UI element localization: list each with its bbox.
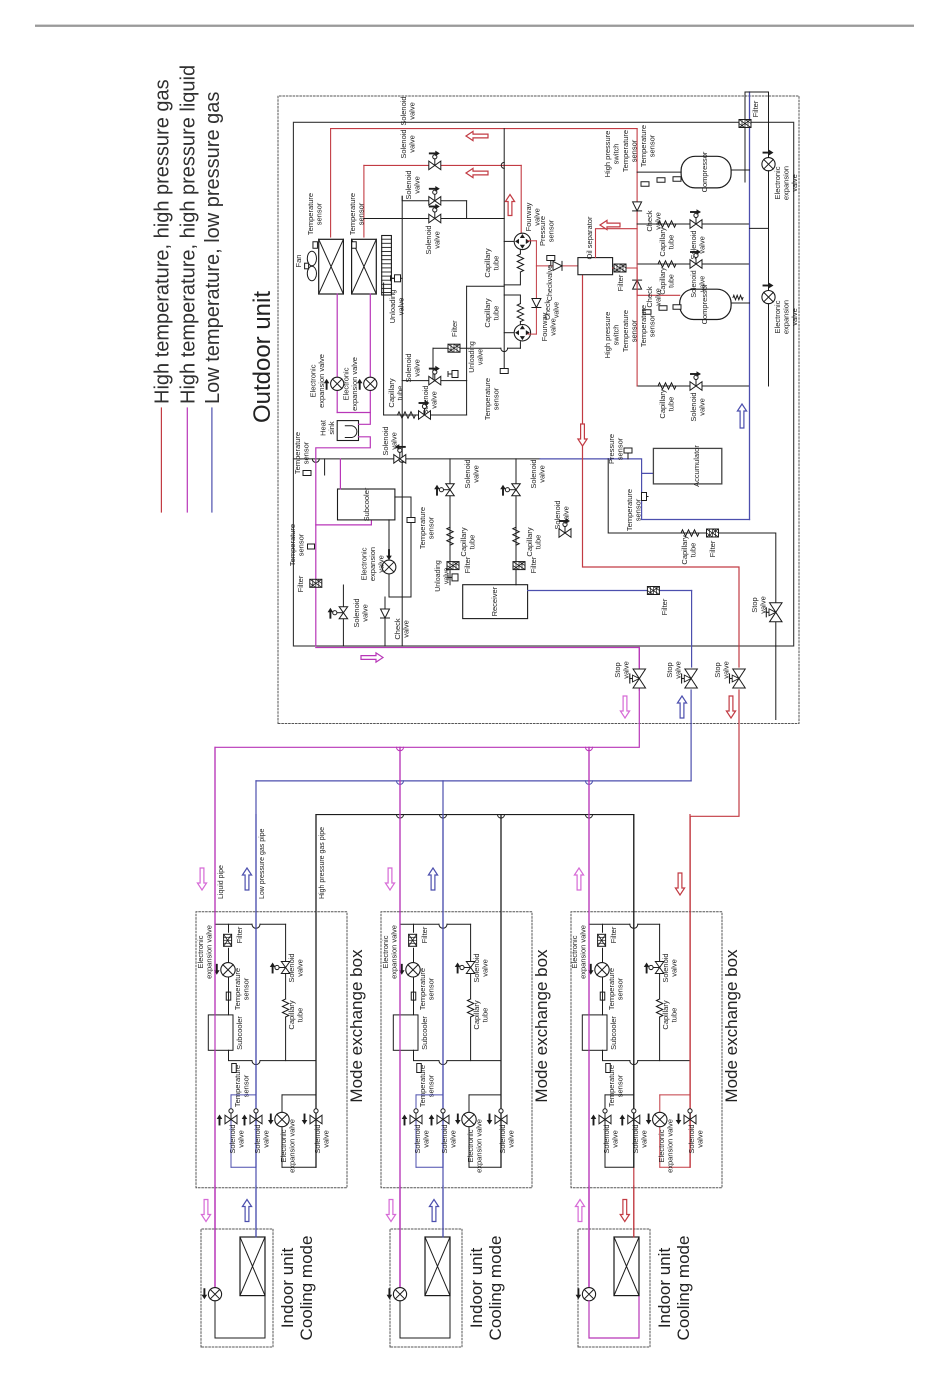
solenoid valve mid wire: [402, 380, 466, 382]
compressor 1: [681, 156, 731, 188]
wire through EEV to subcooler: [413, 977, 415, 1015]
EEV mode box: [406, 963, 420, 977]
svg-text:Cooling mode: Cooling mode: [297, 1236, 316, 1341]
comp1 suction stub: [731, 169, 749, 171]
magenta subcooler branch: [316, 520, 372, 525]
svg-text:valve: valve: [377, 555, 386, 573]
rack wire B: [402, 196, 466, 201]
filter mode box: [224, 934, 232, 946]
svg-text:valve: valve: [481, 959, 490, 977]
mid wire segment 1: [605, 1094, 634, 1096]
indoor gas pipe: [442, 1186, 444, 1237]
bottom wire: [416, 1166, 443, 1168]
magenta subcooler inlet: [339, 459, 341, 489]
wire: red discharge to condenser 1: [330, 129, 332, 237]
svg-text:valve: valve: [554, 302, 561, 318]
temperature sensor 1 mode box: [600, 992, 605, 1000]
svg-text:Mode exchange box: Mode exchange box: [722, 949, 741, 1103]
temperature sensor 2 mode box: [606, 1064, 611, 1073]
subcooler outlet wire with temperature sensor: [410, 497, 412, 552]
accumulator tank: [653, 448, 721, 484]
liquid pipe into indoor unit: [588, 1186, 590, 1288]
indoor heat exchanger: [240, 1237, 265, 1296]
svg-text:expansion valve: expansion valve: [390, 925, 399, 979]
filter on stop valve 4 line: [707, 529, 719, 537]
svg-text:valve: valve: [478, 349, 485, 365]
bottom wire: [231, 1166, 256, 1168]
svg-text:valve: valve: [538, 465, 547, 483]
svg-text:tube: tube: [296, 1008, 305, 1023]
solenoid valve bottom 3 on pipe3: [684, 1115, 696, 1124]
subcooler line B solenoid/capillary/filter: [515, 459, 517, 585]
liquid pipe through box: [399, 747, 401, 1287]
comp2 suction stub with capillary: [731, 302, 749, 304]
blue arrow below stop valve 2: [677, 696, 686, 718]
svg-text:expansion valve: expansion valve: [579, 925, 588, 979]
black line capillary/filter to stop valve 4: [608, 459, 776, 603]
pressure sensor near four-way valve: [550, 261, 552, 266]
mode exchange box dashed enclosure: [571, 912, 722, 1188]
svg-text:Indoor unit: Indoor unit: [655, 1248, 674, 1329]
EEV mode box: [595, 963, 609, 977]
blue accumulator outlet loop: [642, 473, 750, 519]
red flow arrow on condenser 2 line: [466, 168, 488, 177]
svg-text:valve: valve: [322, 1130, 331, 1148]
auxiliary striped coil: [382, 236, 392, 296]
gas pipe 2 through box: [255, 815, 257, 1168]
solenoid branch wire: [470, 924, 472, 961]
magenta out of heat sink to left run: [316, 437, 371, 646]
liquid pipe into indoor unit: [399, 1186, 401, 1288]
check valve comp2: [633, 280, 642, 289]
solenoid branch wire: [659, 924, 661, 961]
svg-text:Unloading: Unloading: [469, 341, 476, 373]
high pressure gas pipe to box2: [500, 815, 502, 1168]
subcooler outlet wire: [229, 1050, 253, 1060]
svg-text:sensor: sensor: [648, 134, 657, 157]
svg-text:valve: valve: [433, 231, 442, 249]
svg-text:sensor: sensor: [427, 1074, 436, 1097]
page header rule: [35, 25, 914, 27]
svg-text:valve: valve: [361, 604, 370, 622]
svg-text:sensor: sensor: [630, 139, 639, 162]
top wire from liquid pipe: [589, 923, 630, 925]
stop valve 2 connection into unit via filter line: [691, 591, 693, 668]
rack link wires: [466, 201, 468, 219]
indoor arrows: [386, 1200, 395, 1222]
solenoid valve C on rack: [429, 214, 441, 223]
indoor unit dashed enclosure: [201, 1229, 273, 1347]
svg-text:valve: valve: [622, 661, 631, 679]
svg-text:sensor: sensor: [492, 387, 501, 410]
electronic expansion valve A: [762, 158, 775, 171]
top wire from liquid pipe: [215, 923, 252, 925]
indoor loop: [400, 1296, 450, 1338]
temperature sensor 1 mode box: [411, 992, 416, 1000]
solenoid valve bottom 1: [599, 1115, 611, 1124]
magenta liquid from coil 2 through EEV: [369, 294, 371, 377]
indoor EEV: [208, 1288, 221, 1301]
svg-text:Fan: Fan: [294, 255, 303, 268]
svg-text:switch: switch: [612, 325, 621, 346]
svg-text:expansion valve: expansion valve: [350, 357, 359, 411]
suction link line: [503, 129, 505, 373]
svg-text:tube: tube: [481, 1008, 490, 1023]
svg-text:Cooling mode: Cooling mode: [486, 1236, 505, 1341]
EEV bottom on branch: [462, 1112, 476, 1126]
svg-text:sensor: sensor: [616, 1074, 625, 1097]
svg-text:valve: valve: [722, 661, 731, 679]
unloader bypass 3 (capillary+solenoid): [637, 385, 749, 387]
heat exchanger coil 1: [319, 239, 344, 294]
capillary link fwv2 to trunk: [519, 322, 521, 325]
svg-text:Indoor unit: Indoor unit: [467, 1248, 486, 1329]
wire from bypass to trunk: [383, 283, 385, 415]
EEV bottom on branch: [653, 1112, 667, 1126]
solenoid valve bottom 1: [410, 1115, 422, 1124]
svg-text:valve: valve: [611, 1130, 620, 1148]
red flow arrow on discharge header: [578, 424, 587, 446]
SV1 branch wire: [604, 1095, 606, 1167]
stop valve 3 hot gas: [733, 669, 746, 688]
gas pipe 2 through box: [633, 815, 635, 1168]
blue suction header: [749, 92, 751, 520]
electronic expansion valve coil1: [331, 377, 344, 390]
solenoid valve bottom 3 on pipe3: [495, 1115, 507, 1124]
blue gas pipe to box2: [442, 781, 444, 1237]
EEV mode box: [221, 963, 235, 977]
svg-text:expansion valve: expansion valve: [317, 354, 326, 408]
red drop from stop valve 3: [690, 690, 739, 1167]
SV1 branch wire: [230, 1095, 232, 1167]
indoor loop: [589, 1296, 639, 1338]
svg-text:Filter: Filter: [529, 556, 538, 573]
high pressure gas pipe to box1: [315, 815, 317, 1168]
svg-text:sink: sink: [327, 421, 336, 435]
outdoor unit inner solid box: [293, 122, 793, 646]
solenoid valve on main vertical: [394, 455, 406, 464]
svg-text:sensor: sensor: [357, 202, 366, 225]
liquid pipe through box: [214, 747, 216, 1287]
solenoid valve A on red condenser-2 line: [429, 161, 441, 170]
pressure sensor accumulator: [627, 453, 629, 459]
svg-text:High temperature, high pressur: High temperature, high pressure liquid: [177, 65, 199, 404]
svg-text:valve: valve: [654, 212, 663, 230]
blue gas line to stop valve 2: [690, 690, 692, 781]
svg-text:valve: valve: [562, 506, 571, 524]
svg-text:valve: valve: [413, 359, 422, 377]
indoor unit dashed enclosure: [390, 1229, 462, 1347]
mode exchange box dashed enclosure: [381, 912, 532, 1188]
svg-text:sensor: sensor: [297, 533, 306, 556]
magenta segment stop valve 1 to unit: [638, 648, 640, 668]
svg-text:sensor: sensor: [616, 437, 625, 460]
junction bumps on liquid main: [397, 747, 404, 750]
svg-text:Indoor unit: Indoor unit: [278, 1248, 297, 1329]
blue flow arrow on suction header: [737, 404, 746, 428]
four-way valve 1 top stub: [504, 240, 514, 242]
EEV branch wire: [659, 1095, 661, 1167]
svg-text:tube: tube: [396, 386, 405, 401]
svg-text:expansion valve: expansion valve: [475, 1119, 484, 1173]
check valve near receiver: [384, 597, 386, 646]
solenoid valve bottom 2 on gas pipe: [628, 1115, 640, 1124]
magenta liquid from coil 1 through EEV: [336, 294, 338, 377]
red flow arrow on condenser 1 line: [466, 131, 488, 140]
solenoid+capillary bypass: [384, 414, 467, 416]
svg-text:valve: valve: [408, 135, 417, 153]
legend line: low temperature low pressure gas: [211, 408, 213, 512]
svg-text:sensor: sensor: [648, 314, 657, 337]
red header lower span: [636, 295, 638, 386]
svg-text:valve: valve: [698, 398, 707, 416]
subcooler mode box: [393, 1015, 418, 1050]
svg-text:tube: tube: [534, 535, 543, 550]
unloader bypass 1 (capillary+solenoid): [637, 223, 749, 225]
svg-text:Unloading: Unloading: [435, 560, 442, 592]
filter on magenta run: [310, 579, 322, 587]
unloading valve under striped coil: [391, 277, 402, 279]
high pressure gas pipe to box3: [633, 815, 635, 1168]
capillary tube top branch: [282, 999, 288, 1017]
svg-text:Check: Check: [545, 300, 552, 320]
legend line: high temperature high pressure gas: [160, 408, 162, 512]
svg-text:sensor: sensor: [547, 219, 556, 242]
mid wire segment 2: [660, 1094, 690, 1096]
subcooler outlet wire: [603, 1050, 630, 1060]
capillary on stop valve 4 line: [681, 530, 699, 536]
svg-text:Oil separator: Oil separator: [585, 216, 594, 259]
indoor gas pipe: [255, 1186, 257, 1237]
svg-text:Filter: Filter: [296, 575, 305, 592]
stop valve 4 tail: [775, 622, 777, 719]
heat exchanger coil 2: [352, 239, 377, 294]
svg-text:tube: tube: [667, 235, 676, 250]
svg-text:Low pressure gas pipe: Low pressure gas pipe: [259, 828, 266, 899]
filter on wire: [448, 344, 460, 352]
temperature sensor 2 mode box: [417, 1064, 422, 1073]
svg-text:Filter: Filter: [708, 540, 717, 557]
svg-text:tube: tube: [492, 256, 501, 271]
svg-text:valve: valve: [472, 465, 481, 483]
svg-text:sensor: sensor: [315, 202, 324, 225]
temperature sensor 2 mode box: [232, 1064, 237, 1073]
filter comp2 discharge: [614, 264, 626, 272]
gas pipe 2 through box: [442, 815, 444, 1168]
unloader bypass 2 (capillary+solenoid): [637, 263, 749, 265]
temperature sensor on suction link: [500, 369, 508, 374]
svg-text:High pressure gas pipe: High pressure gas pipe: [319, 827, 326, 899]
svg-text:Filter: Filter: [463, 556, 472, 573]
indoor EEV: [582, 1288, 595, 1301]
indoor heat exchanger: [425, 1237, 450, 1296]
field arrows box2: [385, 868, 394, 890]
EEV-A wire to suction: [750, 227, 769, 229]
capillary tube top branch: [656, 999, 662, 1017]
svg-text:Receiver: Receiver: [490, 586, 499, 616]
liquid pipe into indoor unit: [214, 1186, 216, 1288]
red hot gas below box3 to indoor 3: [633, 1167, 635, 1237]
temperature sensor accumulator: [642, 496, 648, 498]
filter top right: [739, 120, 751, 128]
red line from oil separator (discharge header): [583, 275, 740, 667]
subcooler line A solenoid/capillary/filter: [449, 459, 451, 585]
filter on stop valve 2 line: [647, 587, 659, 595]
temperature sensor 1 mode box: [226, 992, 231, 1000]
subcooler outlet wire: [414, 1050, 440, 1060]
svg-text:Mode exchange box: Mode exchange box: [347, 949, 366, 1103]
blue gas pipe to box1: [255, 781, 257, 1237]
EEV branch wire: [281, 1095, 283, 1167]
solenoid valve bottom 2 on gas pipe: [250, 1115, 262, 1124]
red branch to oil separator with check valve: [536, 265, 578, 267]
svg-text:Filter: Filter: [609, 926, 618, 943]
svg-text:sensor: sensor: [634, 498, 643, 521]
svg-text:expansion valve: expansion valve: [288, 1119, 297, 1173]
EEV bottom on branch: [275, 1112, 289, 1126]
black trunk wire from striped coil: [401, 196, 403, 646]
pink arrow inside unit (liquid line): [361, 653, 383, 662]
svg-text:tube: tube: [667, 397, 676, 412]
svg-text:sensor: sensor: [427, 516, 436, 539]
svg-text:Compressor: Compressor: [700, 151, 709, 192]
solenoid valve bottom 3 on pipe3: [310, 1115, 322, 1124]
four-way valve 2: [514, 324, 530, 340]
pipe3 through box: [315, 815, 317, 1168]
unloading valve receiver: [452, 574, 458, 581]
svg-text:Filter: Filter: [660, 598, 669, 615]
svg-text:Low temperature, low pressure: Low temperature, low pressure gas: [202, 92, 224, 404]
electronic expansion valve B: [762, 291, 775, 304]
solenoid valve B on rack: [429, 197, 441, 206]
unloading valve mid: [452, 371, 458, 378]
svg-text:expansion valve: expansion valve: [205, 925, 214, 979]
svg-text:Subcooler: Subcooler: [420, 1016, 429, 1050]
capillary tube top branch: [467, 999, 473, 1017]
svg-text:valve: valve: [237, 1130, 246, 1148]
subcooler mode box: [582, 1015, 607, 1050]
red: comp2 discharge via filter to oil separator: [613, 268, 680, 295]
svg-text:sensor: sensor: [302, 441, 311, 464]
svg-text:valve: valve: [262, 1130, 271, 1148]
stop valve 4 (high pressure service): [770, 603, 783, 622]
svg-text:Subcooler: Subcooler: [362, 487, 371, 521]
svg-text:valve: valve: [402, 620, 411, 638]
svg-text:Outdoor unit: Outdoor unit: [249, 291, 276, 423]
mid wire segment 2: [282, 1094, 316, 1096]
indoor unit dashed enclosure: [578, 1229, 650, 1347]
svg-text:valve: valve: [670, 959, 679, 977]
temperature sensor on coil 1: [313, 242, 318, 249]
filter mode box: [409, 934, 417, 946]
svg-text:valve: valve: [408, 102, 417, 120]
mid wire segment 1: [416, 1094, 443, 1096]
pink arrow below stop valve 1: [620, 696, 629, 718]
top wire from liquid pipe: [400, 923, 439, 925]
EEV coil2: [364, 377, 377, 390]
svg-text:Filter: Filter: [450, 320, 459, 337]
svg-text:tube: tube: [669, 274, 676, 288]
SV1 branch wire: [415, 1095, 417, 1167]
svg-text:valve: valve: [700, 276, 707, 292]
svg-text:High temperature, high pressur: High temperature, high pressure gas: [151, 79, 173, 404]
svg-text:sensor: sensor: [427, 977, 436, 1000]
heat sink box: [337, 421, 358, 441]
svg-text:tube: tube: [468, 535, 477, 550]
solenoid valve bottom 2 on gas pipe: [437, 1115, 449, 1124]
svg-text:valve: valve: [397, 298, 406, 316]
magenta liquid pipe to box2: [399, 747, 401, 1287]
svg-text:switch: switch: [612, 144, 621, 165]
svg-text:valve: valve: [430, 391, 439, 409]
temperature sensor near solid box edge: [324, 459, 326, 475]
solenoid valve top branch: [466, 962, 475, 974]
indoor loop: [215, 1296, 265, 1338]
svg-text:tube: tube: [492, 306, 501, 321]
EEV-B wires: [768, 304, 770, 386]
svg-text:Cooling mode: Cooling mode: [674, 1236, 693, 1341]
svg-text:Filter: Filter: [616, 274, 625, 291]
black line top: filter to EEV-A: [745, 92, 769, 182]
subcooler mode box: [208, 1015, 233, 1050]
EEV branch wire: [468, 1095, 470, 1167]
mid wire segment 1: [231, 1094, 256, 1096]
indoor gas pipe: [633, 1186, 635, 1237]
svg-text:tube: tube: [689, 543, 698, 558]
solenoid valve on that line: [559, 529, 571, 538]
svg-text:valve: valve: [449, 1130, 458, 1148]
black high pressure main (field): [316, 814, 634, 816]
svg-text:Accumulator: Accumulator: [692, 445, 701, 487]
solenoid valve lower-left: [342, 585, 344, 646]
wire through EEV to subcooler: [602, 977, 604, 1015]
field arrows box3: [574, 868, 583, 890]
blue wire to accumulator: [608, 459, 653, 474]
compressor 2 discharge stub w/ sensors: [643, 310, 651, 315]
four-way valve 2 top stub: [504, 332, 514, 334]
svg-text:valve: valve: [507, 1130, 516, 1148]
oil separator box: [578, 258, 613, 275]
rack wire C: [364, 218, 504, 220]
indoor EEV: [393, 1288, 406, 1301]
check valve on crossover: [532, 299, 541, 308]
mode exchange box dashed enclosure: [196, 912, 347, 1188]
stop valve 1 liquid: [633, 669, 646, 688]
svg-text:Filter: Filter: [420, 926, 429, 943]
svg-text:Subcooler: Subcooler: [235, 1016, 244, 1050]
magenta merge into heat sink: [337, 413, 370, 425]
legend line: high temperature high pressure liquid: [186, 408, 188, 512]
svg-text:valve: valve: [790, 174, 799, 192]
svg-text:Filter: Filter: [751, 100, 760, 117]
indoor arrows: [575, 1200, 584, 1222]
main vertical line (portrait py459): [293, 458, 540, 460]
solenoid branch wire: [285, 924, 287, 961]
capillary link fwv1 to trunk: [519, 250, 521, 255]
red crossover between four-way valves: [528, 240, 536, 242]
svg-text:valve: valve: [422, 1130, 431, 1148]
svg-text:Capillary: Capillary: [660, 267, 667, 295]
svg-text:valve: valve: [759, 596, 768, 614]
pipe3 through box: [689, 815, 691, 1168]
indoor arrows: [201, 1200, 210, 1222]
svg-text:Liquid pipe: Liquid pipe: [218, 865, 225, 899]
svg-text:sensor: sensor: [242, 977, 251, 1000]
solenoid valve top branch: [281, 962, 290, 974]
temperature sensor on magenta run: [308, 544, 315, 549]
svg-text:valve: valve: [444, 568, 451, 584]
receiver box: [463, 585, 528, 619]
